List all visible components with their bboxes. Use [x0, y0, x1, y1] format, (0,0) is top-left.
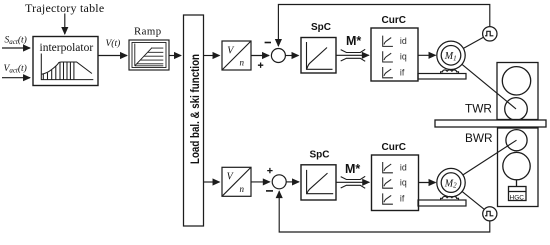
- svg-text:V: V: [227, 45, 235, 56]
- svg-text:SpC: SpC: [310, 150, 330, 161]
- svg-text:Sact(t): Sact(t): [5, 35, 27, 47]
- svg-text:if: if: [400, 194, 405, 204]
- svg-text:M*: M*: [345, 162, 360, 176]
- svg-text:n: n: [240, 184, 245, 194]
- svg-text:Ramp: Ramp: [134, 26, 162, 38]
- svg-text:iq: iq: [400, 52, 407, 62]
- svg-text:if: if: [400, 67, 405, 77]
- svg-text:id: id: [400, 36, 407, 46]
- svg-text:TWR: TWR: [465, 102, 492, 116]
- svg-text:n: n: [240, 58, 245, 68]
- svg-text:M*: M*: [346, 34, 361, 48]
- svg-text:id: id: [400, 162, 407, 172]
- svg-text:V: V: [227, 171, 235, 182]
- svg-text:Trajectory table: Trajectory table: [25, 1, 104, 15]
- svg-text:V(t): V(t): [106, 38, 121, 49]
- svg-text:SpC: SpC: [311, 22, 331, 33]
- svg-text:iq: iq: [400, 178, 407, 188]
- svg-text:Vact(t): Vact(t): [4, 63, 27, 75]
- svg-text:CurC: CurC: [382, 15, 406, 26]
- svg-text:HGC: HGC: [510, 195, 525, 202]
- svg-text:CurC: CurC: [382, 142, 406, 153]
- svg-text:Load bal. & ski function: Load bal. & ski function: [188, 54, 202, 164]
- svg-text:interpolator: interpolator: [40, 42, 94, 54]
- svg-text:BWR: BWR: [465, 131, 493, 145]
